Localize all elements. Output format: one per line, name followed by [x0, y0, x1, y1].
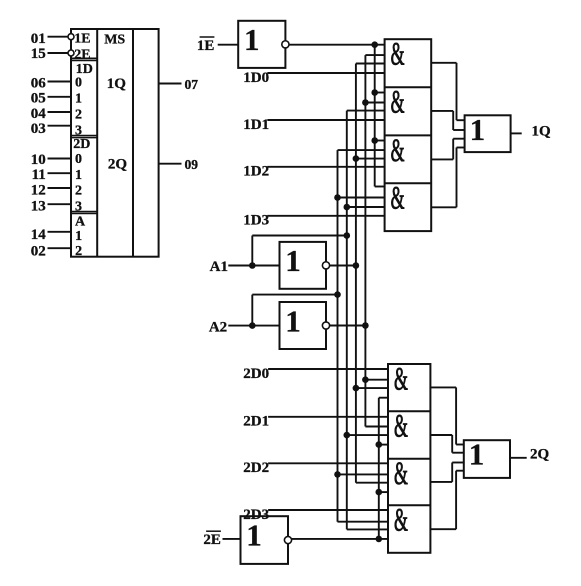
- svg-text:07: 07: [185, 77, 199, 92]
- svg-text:2Q: 2Q: [108, 156, 128, 172]
- svg-text:&: &: [394, 408, 408, 444]
- svg-text:&: &: [394, 361, 408, 397]
- svg-text:11: 11: [32, 167, 46, 183]
- svg-text:&: &: [391, 36, 405, 72]
- svg-text:06: 06: [31, 76, 47, 92]
- svg-text:A: A: [75, 214, 86, 229]
- svg-text:&: &: [394, 502, 408, 538]
- svg-text:2: 2: [75, 108, 82, 123]
- svg-text:1: 1: [285, 303, 301, 338]
- svg-text:2D2: 2D2: [243, 460, 269, 476]
- svg-text:0: 0: [75, 152, 82, 167]
- svg-text:2D3: 2D3: [243, 507, 269, 523]
- svg-text:A2: A2: [209, 319, 227, 335]
- svg-text:0: 0: [75, 76, 82, 91]
- svg-text:02: 02: [31, 244, 46, 260]
- svg-text:13: 13: [31, 198, 46, 214]
- svg-text:05: 05: [31, 90, 46, 106]
- svg-text:&: &: [391, 84, 405, 120]
- svg-text:3: 3: [75, 200, 82, 215]
- svg-text:2D1: 2D1: [243, 414, 269, 430]
- svg-text:04: 04: [31, 106, 47, 122]
- svg-text:1: 1: [470, 112, 486, 147]
- svg-text:1: 1: [285, 243, 301, 278]
- svg-text:2E: 2E: [203, 532, 221, 548]
- svg-text:1: 1: [75, 168, 82, 183]
- svg-text:09: 09: [185, 157, 199, 172]
- svg-text:2: 2: [75, 184, 82, 199]
- svg-text:1: 1: [244, 22, 260, 57]
- svg-text:15: 15: [31, 46, 46, 62]
- svg-text:1D0: 1D0: [243, 70, 269, 86]
- svg-text:1D3: 1D3: [243, 213, 269, 229]
- svg-text:1: 1: [75, 229, 82, 244]
- svg-text:1E: 1E: [197, 38, 215, 54]
- svg-text:12: 12: [31, 183, 46, 199]
- svg-text:2E: 2E: [74, 48, 90, 63]
- svg-text:MS: MS: [104, 32, 125, 47]
- svg-text:1Q: 1Q: [532, 124, 552, 140]
- svg-text:1Q: 1Q: [107, 76, 127, 92]
- svg-text:2Q: 2Q: [530, 447, 550, 463]
- svg-text:1: 1: [75, 92, 82, 107]
- svg-text:10: 10: [31, 152, 46, 168]
- svg-text:&: &: [394, 456, 408, 492]
- svg-text:03: 03: [31, 121, 46, 137]
- svg-text:14: 14: [31, 227, 47, 243]
- svg-text:A1: A1: [210, 259, 228, 275]
- svg-text:1E: 1E: [74, 32, 90, 47]
- svg-text:01: 01: [31, 31, 46, 47]
- svg-text:1D1: 1D1: [243, 117, 269, 133]
- svg-text:&: &: [391, 132, 405, 168]
- svg-text:1D2: 1D2: [243, 164, 269, 180]
- svg-text:2D: 2D: [73, 137, 90, 152]
- svg-text:1: 1: [469, 437, 485, 472]
- svg-text:2: 2: [75, 244, 82, 259]
- svg-text:&: &: [391, 180, 405, 216]
- svg-text:2D0: 2D0: [243, 366, 269, 382]
